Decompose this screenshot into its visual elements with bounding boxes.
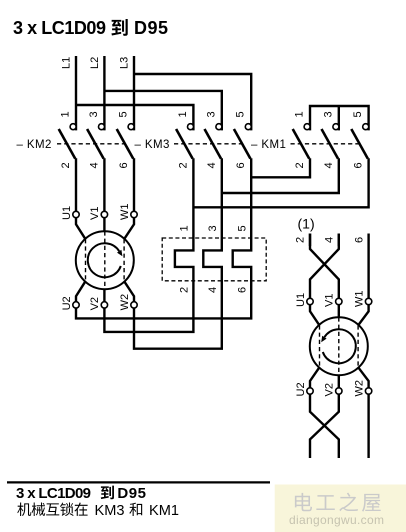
wire W1 entry into motor M2 — [358, 305, 369, 326]
svg-text:3 x LC1D09: 3 x LC1D09 — [13, 18, 106, 38]
contactor KM2 pole moving arm — [117, 129, 134, 159]
contactor KM1 pole moving arm — [293, 129, 310, 159]
motor M2 terminal V1 — [336, 298, 342, 304]
wire W2 exit from motor M1 — [124, 281, 134, 301]
wire KM1 output 6 to KM3 output 2 node — [193, 158, 368, 207]
svg-text:3: 3 — [88, 111, 100, 117]
wire KM3 output 6 through link to motor M1 terminal U2 — [76, 158, 251, 318]
contactor KM1 mechanical link dashed line — [291, 143, 361, 145]
caption line 2 "机械互锁在 KM3 和 KM1" — [17, 502, 179, 518]
wire V1 entry into motor M1 — [103, 218, 105, 232]
svg-text:U1: U1 — [295, 293, 307, 307]
svg-text:V2: V2 — [324, 383, 336, 396]
svg-text:V1: V1 — [89, 207, 101, 220]
svg-text:6: 6 — [353, 162, 365, 168]
svg-text:4: 4 — [88, 162, 100, 168]
wire branch L2 to KM3 pole 3 — [104, 91, 221, 130]
svg-text:U1: U1 — [61, 206, 73, 220]
wire U1 entry into motor M2 — [310, 305, 320, 326]
wire KM2 output 4 to motor terminal — [103, 158, 105, 211]
svg-text:KM3: KM3 — [95, 503, 125, 519]
wire U2 exit from motor M1 — [76, 281, 86, 301]
contactor KM1 pole 3-4 fixed contact seat — [333, 124, 339, 130]
motor M2 terminal W2 — [365, 388, 371, 394]
svg-text:W1: W1 — [119, 204, 131, 221]
contactor KM1 pole moving arm — [351, 129, 368, 159]
svg-text:W1: W1 — [353, 291, 365, 308]
svg-text:U2: U2 — [61, 296, 73, 310]
wire crossover 4 to U1 — [310, 234, 339, 299]
wire U phase dashed inside motor M2 — [319, 325, 321, 367]
svg-text:(1): (1) — [298, 216, 315, 232]
svg-text:5: 5 — [236, 225, 248, 231]
wire W phase dashed inside motor M1 — [123, 239, 125, 281]
contactor KM3 pole 1-2 fixed contact seat — [188, 124, 194, 130]
motor M1 terminal W1 — [131, 211, 137, 217]
svg-text:V2: V2 — [89, 297, 101, 310]
motor M1 terminal U2 — [73, 302, 79, 308]
wire KM2 output 2 to motor terminal — [75, 158, 77, 211]
contactor KM2 mechanical link dashed line — [57, 143, 126, 145]
svg-text:1: 1 — [177, 111, 189, 117]
wire W1 entry into motor M1 — [124, 218, 134, 240]
wire V phase dashed inside motor M1 — [104, 231, 106, 289]
wire KM1 supply bus — [310, 106, 369, 130]
motor M1 terminal W2 — [131, 302, 137, 308]
watermark background box — [275, 485, 406, 532]
contactor KM3 pole moving arm — [205, 129, 222, 159]
svg-text:D95: D95 — [117, 485, 146, 502]
caption line 1 "3 x LC1D09 到 D95" — [16, 485, 146, 502]
wire V2 exit from motor M1 — [103, 289, 105, 301]
svg-text:W2: W2 — [119, 294, 131, 311]
svg-text:W2: W2 — [353, 380, 365, 397]
motor M2 terminal V2 — [336, 388, 342, 394]
wire U2 exit from motor M2 — [310, 367, 320, 388]
svg-text:U2: U2 — [295, 382, 307, 396]
wire V2 exit from motor M2 — [338, 375, 340, 388]
svg-text:– KM1: – KM1 — [251, 139, 286, 151]
motor M1 terminal V1 — [101, 211, 107, 217]
svg-text:KM1: KM1 — [149, 503, 179, 519]
wire U phase dashed inside motor M1 — [85, 239, 87, 281]
contactor KM2 pole 3-4 fixed contact seat — [99, 124, 105, 130]
wire KM2 output 6 to motor terminal — [133, 158, 135, 211]
svg-text:4: 4 — [207, 287, 219, 293]
contactor KM3 pole 3-4 fixed contact seat — [216, 124, 222, 130]
wire 6 to W1 — [367, 246, 369, 298]
contactor KM3 pole moving arm — [176, 129, 193, 159]
contactor KM3 pole 5-6 fixed contact seat — [245, 124, 251, 130]
contactor KM3 pole moving arm — [234, 129, 251, 159]
svg-text:3: 3 — [207, 225, 219, 231]
svg-text:2: 2 — [177, 162, 189, 168]
svg-text:3: 3 — [205, 111, 217, 117]
svg-text:– KM3: – KM3 — [135, 139, 170, 151]
svg-text:2: 2 — [60, 162, 72, 168]
wire L2 feeder vertical — [103, 56, 105, 130]
caption separator rule — [7, 481, 270, 483]
contactor KM2 pole 1-2 fixed contact seat — [70, 124, 76, 130]
wire KM3 output 2 through link to motor M1 terminal V2 — [104, 158, 193, 332]
svg-text:4: 4 — [324, 237, 336, 243]
svg-text:L2: L2 — [89, 57, 101, 69]
svg-text:4: 4 — [323, 162, 335, 168]
motor M2 rotation arrow counterclockwise — [321, 329, 356, 363]
motor M2 terminal U2 — [307, 388, 313, 394]
svg-text:1: 1 — [294, 111, 306, 117]
wire V phase dashed inside motor M2 — [338, 317, 340, 375]
wire KM3 output 4 through link to motor M1 terminal W2 — [134, 158, 222, 349]
svg-text:5: 5 — [235, 111, 247, 117]
wire L1 feeder vertical — [75, 56, 77, 130]
svg-text:4: 4 — [206, 162, 218, 168]
title text "3 x LC1D09 到 D95" — [13, 18, 168, 38]
wire W2 exit from motor M2 — [358, 367, 369, 388]
svg-text:2: 2 — [179, 287, 191, 293]
wire motor M2 W2 down — [367, 394, 369, 458]
wire W phase dashed inside motor M2 — [357, 325, 359, 367]
watermark text 电工之屋 — [295, 493, 312, 511]
motor M2 terminal W1 — [365, 298, 371, 304]
contactor KM1 pole moving arm — [322, 129, 339, 159]
wire continuation stub 6 — [367, 234, 369, 247]
svg-text:3 x LC1D09: 3 x LC1D09 — [16, 485, 91, 502]
svg-text:– KM2: – KM2 — [17, 139, 52, 151]
wire KM1 output 4 to KM3 output 4 node — [222, 158, 339, 193]
svg-text:2: 2 — [295, 237, 307, 243]
wire V1 entry into motor M2 — [338, 305, 340, 318]
contactor KM1 pole 5-6 fixed contact seat — [363, 124, 369, 130]
svg-text:6: 6 — [236, 287, 248, 293]
svg-text:6: 6 — [353, 237, 365, 243]
contactor KM2 pole moving arm — [59, 129, 75, 159]
svg-text:D95: D95 — [134, 18, 168, 38]
wire branch L3 to KM3 pole 5 — [134, 74, 251, 130]
wire L3 feeder vertical — [133, 56, 135, 130]
motor M2 terminal U1 — [307, 298, 313, 304]
svg-text:6: 6 — [235, 162, 247, 168]
svg-text:3: 3 — [322, 111, 334, 117]
wire KM1 output 2 to KM3 output 6 node — [251, 158, 310, 177]
wire crossover motor M2 U2 down — [310, 394, 339, 458]
contactor KM2 pole moving arm — [87, 129, 104, 159]
svg-text:2: 2 — [294, 162, 306, 168]
wire U1 entry into motor M1 — [76, 218, 86, 240]
svg-text:1: 1 — [179, 225, 191, 231]
motor M1 terminal U1 — [73, 211, 79, 217]
wire crossover 2 to V1 — [310, 234, 339, 299]
motor M1 terminal V2 — [101, 302, 107, 308]
wire continuation stub 2 — [309, 234, 311, 247]
motor M2 body circle — [310, 317, 368, 375]
svg-text:diangongwu.com: diangongwu.com — [289, 513, 384, 527]
svg-text:L1: L1 — [61, 57, 73, 69]
contactor KM2 pole 5-6 fixed contact seat — [128, 124, 134, 130]
svg-text:5: 5 — [118, 111, 130, 117]
wire continuation stub 4 — [338, 234, 340, 247]
contactor KM3 mechanical link dashed line — [174, 143, 244, 145]
svg-text:5: 5 — [352, 111, 364, 117]
svg-text:6: 6 — [118, 162, 130, 168]
wire crossover motor M2 V2 down — [310, 394, 339, 458]
wire branch L1 to KM3 pole 1 — [76, 105, 193, 130]
contactor KM1 pole 1-2 fixed contact seat — [304, 124, 310, 130]
svg-text:1: 1 — [60, 111, 72, 117]
svg-text:V1: V1 — [324, 294, 336, 307]
svg-text:L3: L3 — [119, 57, 131, 69]
motor M1 body circle — [76, 231, 134, 289]
motor M1 rotation arrow clockwise — [88, 243, 123, 277]
terminal box dashed outline — [162, 238, 266, 281]
